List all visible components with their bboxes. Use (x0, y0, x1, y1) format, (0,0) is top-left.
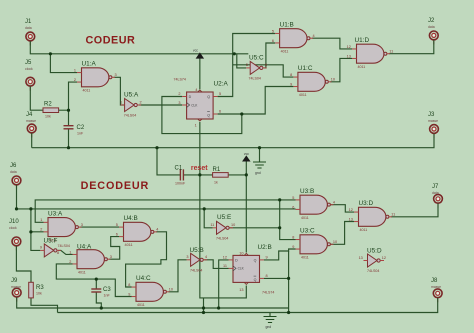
svg-text:C1: C1 (175, 166, 183, 172)
svg-text:11: 11 (223, 264, 227, 268)
svg-text:4: 4 (313, 34, 315, 38)
connector J9 (11, 278, 21, 302)
wire J4 to rail (31, 133, 33, 148)
svg-text:J6: J6 (10, 163, 17, 169)
svg-text:8: 8 (290, 73, 292, 77)
ground decoder (264, 317, 277, 330)
junction (259.5,147.7) (258, 146, 261, 149)
nand gate U4:B (116, 215, 159, 247)
svg-text:masse: masse (26, 119, 36, 123)
svg-text:data: data (10, 170, 17, 174)
svg-text:U5:C: U5:C (249, 55, 264, 62)
wire U4:A out to U4:B pin6 (109, 237, 119, 260)
junction (279.7,199.9) (278, 198, 281, 201)
capacitor C1 (175, 166, 186, 186)
svg-text:J3: J3 (428, 112, 435, 118)
connector J8 (431, 278, 442, 302)
ground codeur (253, 162, 266, 175)
wire U3:A out to U4:B pin5 (80, 226, 119, 228)
wire U1:C out to U1:D pin13 (330, 58, 352, 81)
wire R1 to vcc2 (228, 161, 246, 175)
junction (30.9,208.9) (29, 207, 32, 210)
svg-text:masse: masse (11, 285, 21, 289)
svg-text:data: data (428, 25, 435, 29)
wire U1:A out to U5:A in (114, 77, 125, 105)
resistor R2 (43, 102, 69, 119)
svg-text:10: 10 (333, 240, 337, 244)
connector J3 (428, 112, 438, 138)
svg-text:J2: J2 (428, 18, 435, 24)
svg-text:11: 11 (389, 49, 393, 53)
nand gate U3:D (349, 200, 396, 232)
svg-text:10: 10 (239, 251, 243, 255)
svg-text:13: 13 (347, 54, 351, 58)
svg-text:J4: J4 (26, 112, 33, 118)
svg-text:6: 6 (292, 205, 294, 209)
svg-text:10: 10 (231, 223, 235, 227)
svg-text:3: 3 (81, 223, 83, 227)
wire U3:D out to J7 (391, 203, 438, 216)
svg-text:U3:A: U3:A (48, 210, 63, 217)
svg-text:6: 6 (272, 39, 274, 43)
wire J10 to R3 (16, 246, 31, 282)
inverter U5:D (359, 248, 386, 273)
svg-text:4011: 4011 (137, 303, 145, 307)
nand gate U3:B (292, 188, 335, 220)
svg-text:masse: masse (428, 119, 438, 123)
svg-text:5: 5 (219, 92, 221, 96)
wire J5 to R2 (30, 86, 43, 110)
svg-text:J1: J1 (25, 19, 32, 25)
wire C2 to ground rail (68, 129, 70, 148)
svg-text:4011: 4011 (360, 228, 368, 232)
wire U5:B out to U2:B CLK (204, 260, 228, 269)
connector J5 (25, 60, 35, 91)
wire gnd codeur tap (259, 148, 261, 162)
svg-text:3: 3 (110, 255, 112, 259)
svg-text:74LS74: 74LS74 (262, 290, 274, 294)
svg-text:U5:E: U5:E (217, 214, 231, 221)
capacitor C2 (64, 125, 85, 136)
svg-text:J9: J9 (11, 278, 18, 284)
svg-text:6: 6 (219, 110, 221, 114)
svg-text:12: 12 (223, 256, 227, 260)
svg-text:4: 4 (156, 228, 158, 232)
junction (50.4,53.8) (49, 52, 52, 55)
svg-text:3: 3 (115, 73, 117, 77)
svg-text:vcc: vcc (244, 152, 249, 156)
connector J7 (432, 184, 442, 208)
svg-text:U4:A: U4:A (77, 243, 92, 250)
svg-text:8: 8 (266, 274, 268, 278)
svg-text:74LS04: 74LS04 (190, 268, 202, 272)
svg-text:R2: R2 (44, 102, 52, 108)
svg-text:9: 9 (40, 246, 42, 250)
wire R3 to masse rail (31, 298, 58, 313)
svg-text:11: 11 (391, 213, 395, 217)
svg-text:Q: Q (207, 113, 210, 117)
wire U2:A Q up rail branch to U1:B pin5 and U1:C pin8 (218, 34, 294, 97)
wire U2:A Qbar net to U1:C pin9 (218, 87, 294, 115)
svg-text:3: 3 (186, 255, 188, 259)
svg-text:100nF: 100nF (175, 182, 186, 186)
svg-text:3: 3 (178, 101, 180, 105)
wire U2:B Q to U3:C pin9 (264, 249, 296, 260)
svg-text:4: 4 (195, 88, 197, 92)
wire R2 node to U1:A pin2 (69, 82, 78, 110)
svg-text:Q: Q (207, 95, 210, 99)
inverter U5:B (186, 247, 207, 272)
svg-text:10: 10 (331, 78, 335, 82)
junction (157,147.7) (155, 146, 158, 149)
wire branch to U3:A pin2 (31, 209, 44, 251)
svg-text:12: 12 (347, 45, 351, 49)
wire U3:B out to U3:D pin12 (330, 205, 354, 212)
svg-text:DECODEUR: DECODEUR (81, 180, 150, 192)
svg-text:1: 1 (120, 100, 122, 104)
svg-text:4011: 4011 (301, 216, 309, 220)
power vcc top (193, 49, 203, 59)
wire U1:D out to J2 (389, 40, 434, 54)
svg-text:9: 9 (292, 245, 294, 249)
svg-text:10k: 10k (45, 115, 51, 119)
svg-text:5: 5 (292, 196, 294, 200)
svg-text:2: 2 (178, 92, 180, 96)
svg-text:4011: 4011 (281, 49, 289, 53)
svg-text:gnd: gnd (255, 171, 261, 175)
svg-text:1nF: 1nF (104, 294, 111, 298)
svg-text:U2:A: U2:A (214, 80, 229, 87)
svg-text:8: 8 (128, 283, 130, 287)
wire rail to U5:C in (237, 54, 246, 68)
svg-text:U5:A: U5:A (124, 91, 139, 98)
svg-text:4: 4 (333, 200, 335, 204)
svg-text:9: 9 (128, 292, 130, 296)
wire reset net U2:A R down to decoder (200, 122, 246, 298)
svg-text:C2: C2 (77, 125, 85, 131)
wire masse rail decoder (58, 298, 438, 313)
svg-text:9: 9 (290, 82, 292, 86)
wire U2:A Qbar feedback to D (162, 97, 242, 134)
inverter U5:C (246, 55, 267, 81)
wire R2 node to C2 (68, 110, 70, 126)
svg-text:J5: J5 (25, 60, 32, 66)
svg-text:U4:C: U4:C (136, 275, 151, 282)
svg-text:4011: 4011 (358, 65, 366, 69)
wire C1 to reset node (183, 174, 212, 176)
svg-text:74LS04: 74LS04 (367, 269, 379, 273)
svg-text:4: 4 (205, 255, 207, 259)
svg-text:2: 2 (40, 228, 42, 232)
svg-text:13: 13 (349, 217, 353, 221)
svg-text:1: 1 (195, 124, 197, 128)
junction (234.3,53.8) (233, 52, 236, 55)
wire U4:A pin2 to C3 node to U4:C pin9 (56, 264, 131, 297)
junction (203.5,308) (202, 306, 205, 309)
svg-text:11: 11 (210, 223, 214, 227)
wire U1:B out to U1:D pin12 (312, 38, 352, 49)
svg-text:U3:C: U3:C (300, 228, 315, 235)
svg-text:13: 13 (359, 256, 363, 260)
inverter U5:A (120, 91, 141, 117)
wire U4:B out snake to U4:C pin8 (126, 232, 167, 287)
junction (204.2,208.9) (203, 207, 206, 210)
svg-text:2: 2 (74, 78, 76, 82)
svg-text:9: 9 (266, 256, 268, 260)
svg-text:1k: 1k (214, 181, 218, 185)
svg-text:R1: R1 (213, 167, 221, 173)
junction (279.7,227.8) (278, 226, 281, 229)
wire U4:C out to U5:B in (169, 260, 187, 292)
svg-text:gnd: gnd (266, 325, 272, 329)
svg-text:reset: reset (191, 165, 208, 172)
junction (241.8,114) (240, 112, 243, 115)
svg-text:U5:B: U5:B (190, 247, 204, 254)
svg-text:U1:A: U1:A (82, 61, 97, 68)
svg-text:74LS74: 74LS74 (174, 78, 186, 82)
wire C3 leads (96, 279, 101, 308)
inverter U5:E (210, 214, 235, 241)
nand gate U3:C (292, 228, 337, 260)
inverter U5:F (40, 238, 70, 257)
svg-text:10k: 10k (36, 292, 42, 296)
wire U5:A out to U2:A CLK (139, 104, 182, 106)
svg-text:CODEUR: CODEUR (86, 35, 136, 47)
junction (218.6,308) (217, 306, 220, 309)
svg-text:U1:D: U1:D (355, 37, 370, 44)
wire gnd decoder tap (269, 313, 271, 317)
svg-text:4011: 4011 (83, 89, 91, 93)
flip-flop U2:A (174, 78, 229, 128)
nand gate U4:A (69, 243, 112, 274)
connector J6 (10, 163, 21, 189)
svg-text:U2:B: U2:B (258, 244, 272, 251)
wire U2:B Qbar junction vertical (264, 251, 289, 313)
capacitor C3 (91, 287, 111, 298)
wire J6 to decoder data line (17, 185, 296, 209)
junction (288.6,312.5) (287, 311, 290, 314)
svg-text:U3:D: U3:D (359, 200, 374, 207)
svg-text:D: D (235, 259, 238, 263)
svg-text:10: 10 (169, 287, 173, 291)
connector J4 (26, 112, 36, 138)
junction (101.3,308) (100, 306, 103, 309)
svg-text:5: 5 (116, 223, 118, 227)
svg-text:J7: J7 (432, 184, 439, 190)
wire vcc2 to U2:B S pin (245, 175, 247, 253)
svg-text:C3: C3 (103, 287, 111, 293)
svg-text:74LS04: 74LS04 (124, 113, 136, 117)
nand gate U4:C (128, 275, 173, 307)
svg-text:1: 1 (69, 250, 71, 254)
svg-text:U1:C: U1:C (298, 65, 313, 72)
wire J1 to data rail (30, 41, 248, 54)
svg-text:R3: R3 (36, 285, 44, 291)
wire branch U5:E input (204, 209, 212, 228)
svg-text:4011: 4011 (301, 256, 309, 260)
svg-text:CLK: CLK (191, 104, 198, 108)
junction (246.3,174.9) (245, 173, 248, 176)
wire C1 branch (157, 148, 180, 175)
wire upper latch line U3:A pin1 to U3:B pin5 (35, 200, 295, 222)
svg-text:4011: 4011 (125, 243, 133, 247)
svg-text:6: 6 (265, 63, 267, 67)
wire U2:B D feed vertical (219, 260, 229, 308)
svg-text:1: 1 (74, 69, 76, 73)
svg-text:vcc: vcc (193, 49, 198, 53)
svg-text:masse: masse (431, 285, 441, 289)
svg-text:2: 2 (69, 260, 71, 264)
wire reset drop to rail (203, 298, 205, 313)
svg-text:6: 6 (116, 233, 118, 237)
connector J2 (428, 18, 438, 44)
svg-text:clock: clock (25, 67, 33, 71)
svg-text:13: 13 (239, 288, 243, 292)
wire U5:C out to U1:B pin6 (264, 43, 275, 68)
wire J9 to rail1 (17, 297, 289, 308)
connector J10 (9, 219, 21, 250)
svg-text:5: 5 (246, 63, 248, 67)
svg-text:2: 2 (140, 100, 142, 104)
svg-text:D: D (189, 95, 192, 99)
svg-text:data: data (25, 26, 32, 30)
junction (16.5,208.9) (15, 207, 18, 210)
junction (199.85,174.9) (198, 173, 201, 176)
nand gate U1:A (74, 61, 117, 93)
resistor R3 (29, 282, 45, 298)
svg-text:4011: 4011 (78, 270, 86, 274)
junction (68.5,110.2) (67, 109, 70, 112)
svg-text:12: 12 (382, 256, 386, 260)
svg-text:data: data (432, 191, 439, 195)
connector J1 (25, 19, 35, 46)
svg-text:12: 12 (349, 208, 353, 212)
svg-text:J10: J10 (9, 219, 19, 225)
svg-text:74LS04: 74LS04 (249, 76, 261, 80)
nand gate U1:B (272, 21, 315, 53)
wire vcc to U2:A S pin (199, 58, 201, 90)
wire U5:F out diagonal to U4:A pin1 (58, 250, 73, 254)
svg-text:clock: clock (9, 226, 17, 230)
svg-text:74LS04: 74LS04 (216, 236, 228, 240)
junction (96.3,279.1) (95, 278, 98, 281)
svg-text:Q: Q (254, 278, 257, 282)
svg-text:5: 5 (272, 29, 274, 33)
junction (68.5,147.7) (67, 146, 70, 149)
wire ground rail codeur (32, 134, 434, 148)
svg-text:1nF: 1nF (77, 132, 84, 136)
svg-text:J8: J8 (431, 278, 438, 284)
svg-text:U4:B: U4:B (124, 215, 138, 222)
flip-flop U2:B (223, 244, 275, 294)
svg-text:CLK: CLK (238, 267, 245, 271)
svg-text:1: 1 (40, 218, 42, 222)
power vcc mid (243, 152, 250, 161)
svg-text:Q: Q (254, 259, 257, 263)
svg-text:74LS04: 74LS04 (58, 244, 70, 248)
svg-text:U5:F: U5:F (44, 238, 58, 245)
svg-text:8: 8 (57, 251, 59, 255)
resistor R1 (213, 167, 229, 185)
nand gate U1:D (347, 37, 394, 69)
junction (30.9,231.85) (29, 230, 32, 233)
svg-text:U5:D: U5:D (367, 248, 382, 255)
svg-text:U1:B: U1:B (280, 21, 294, 28)
wire U3:C out to U3:D pin13 (330, 222, 354, 245)
nand gate U1:C (290, 65, 335, 97)
wire U5:E out to U3:C pin8 (228, 200, 295, 240)
svg-text:U3:B: U3:B (300, 188, 314, 195)
svg-text:8: 8 (292, 235, 294, 239)
junction (203.5,312.5) (202, 311, 205, 314)
wire branch to U1:A pin1 (50, 54, 77, 73)
junction (288.6,278.4) (287, 277, 290, 280)
nand gate U3:A (40, 210, 83, 242)
svg-text:4011: 4011 (299, 93, 307, 97)
